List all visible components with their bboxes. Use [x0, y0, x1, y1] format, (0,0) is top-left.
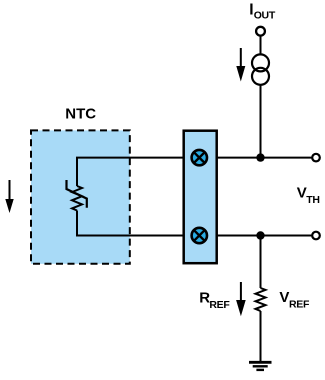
- terminal IOUT: [256, 27, 265, 36]
- mux rectangle: [184, 131, 217, 264]
- label VREF: [279, 289, 310, 311]
- wire terminal to current source: [260, 36, 262, 55]
- wire row B: [76, 235, 312, 237]
- wire node B to resistor: [260, 236, 262, 289]
- wire current source to node A: [260, 85, 262, 159]
- label RREF: [199, 289, 230, 311]
- arrow left temperature: [5, 180, 13, 213]
- wire row A: [76, 157, 312, 159]
- resistor RREF: [256, 288, 266, 311]
- svg-text:REF: REF: [209, 299, 230, 311]
- wire resistor to ground: [260, 311, 262, 362]
- svg-text:V: V: [279, 289, 289, 306]
- arrow RREF current: [236, 282, 246, 316]
- label IOUT: [249, 2, 276, 22]
- svg-text:REF: REF: [289, 298, 310, 310]
- svg-text:OUT: OUT: [254, 9, 276, 21]
- thermistor RT1: [67, 158, 87, 236]
- terminal VTH plus: [312, 154, 320, 162]
- NTC box: [31, 130, 130, 263]
- ground: [249, 362, 272, 370]
- junction node A: [256, 153, 264, 161]
- label VTH: [297, 185, 320, 207]
- arrow current direction IOUT: [236, 48, 245, 82]
- switch X1: [192, 150, 207, 165]
- switch X2: [192, 228, 207, 243]
- terminal VTH minus: [312, 232, 320, 240]
- junction node B: [256, 231, 264, 239]
- current source I1: [252, 54, 269, 84]
- svg-text:NTC: NTC: [65, 106, 96, 123]
- svg-text:TH: TH: [306, 194, 319, 206]
